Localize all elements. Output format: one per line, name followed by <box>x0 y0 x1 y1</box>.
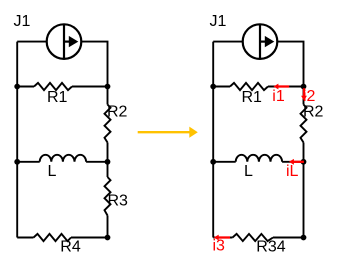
wire rail1 left segment (right circuit) <box>213 86 230 88</box>
svg-text:R1: R1 <box>242 89 263 106</box>
wire rail1 right segment <box>72 86 108 88</box>
inductor L (right) <box>236 155 282 162</box>
wire rail2 left segment (right circuit) <box>213 161 236 163</box>
wire top rail right segment <box>81 42 107 87</box>
node dot rail2 left (left circuit) <box>14 159 20 165</box>
svg-text:R34: R34 <box>256 239 285 256</box>
wire rail1 right segment (right circuit) <box>268 86 304 88</box>
wire right vertical node to R2 (right circuit) <box>303 87 305 105</box>
resistor R2 (left) <box>105 105 111 143</box>
resistor R1 (right) <box>230 83 268 90</box>
node dot rail2 right (right circuit) <box>301 159 307 165</box>
resistor R34 (right) <box>233 234 274 241</box>
node dot rail1 right (left circuit) <box>105 84 111 90</box>
node dot bottom right (right circuit) <box>301 235 307 241</box>
wire right vertical between node B and R3 <box>107 162 109 177</box>
wire bottom rail left segment (right circuit) <box>213 237 232 239</box>
current arrow iL <box>289 159 304 165</box>
wire left vertical (left circuit) <box>16 42 18 238</box>
resistor R4 (left) <box>34 234 72 241</box>
svg-text:i3: i3 <box>213 238 226 255</box>
wire top rail right segment (right circuit) <box>277 42 303 87</box>
svg-text:J1: J1 <box>14 13 31 30</box>
svg-text:L: L <box>48 163 57 180</box>
node dot rail2 right (left circuit) <box>105 159 111 165</box>
node dot rail1 right (right circuit) <box>301 84 307 90</box>
svg-text:R2: R2 <box>303 104 324 121</box>
wire right vertical R2 to node (right circuit) <box>303 143 305 162</box>
current source J1 (left) <box>47 24 82 59</box>
wire left vertical (right circuit) <box>212 42 214 238</box>
svg-text:R2: R2 <box>107 104 128 121</box>
node dot rail2 left (right circuit) <box>210 159 216 165</box>
wire rail2 right segment (right circuit) <box>282 161 303 163</box>
current arrow i1 <box>273 84 289 90</box>
svg-text:i1: i1 <box>272 88 285 105</box>
current source J1 (right) <box>243 24 278 59</box>
resistor R2 (right) <box>301 105 307 143</box>
svg-text:i2: i2 <box>303 88 316 105</box>
node dot rail1 left (right circuit) <box>210 84 216 90</box>
svg-text:R3: R3 <box>108 193 129 210</box>
resistor R3 (left) <box>105 177 111 216</box>
wire rail1 left segment <box>17 86 34 88</box>
svg-text:J1: J1 <box>210 13 227 30</box>
wire bottom rail right segment (right circuit) <box>273 237 304 239</box>
node dot rail1 left (left circuit) <box>14 84 20 90</box>
svg-text:R4: R4 <box>60 239 81 256</box>
svg-text:L: L <box>244 163 253 180</box>
inductor L (left) <box>40 155 86 162</box>
node dot bottom right (left circuit) <box>105 235 111 241</box>
resistor R1 (left) <box>34 83 72 90</box>
current arrow i3 <box>214 235 230 241</box>
wire right vertical between node A and R2 <box>107 87 109 105</box>
wire right vertical lower (right circuit) <box>303 162 305 238</box>
wire bottom rail right segment <box>71 237 108 239</box>
wire bottom rail left segment <box>17 237 33 239</box>
transform arrow (yellow) <box>138 127 198 138</box>
wire top rail left segment (right circuit) <box>213 41 243 43</box>
svg-text:R1: R1 <box>47 89 68 106</box>
wire right vertical between R3 and bottom node <box>107 216 109 238</box>
wire rail2 left segment <box>17 161 40 163</box>
wire rail2 right segment <box>86 161 107 163</box>
wire top rail left segment <box>17 41 47 43</box>
current arrow i2 <box>301 88 307 101</box>
wire right vertical between R2 and node B <box>107 143 109 162</box>
svg-text:iL: iL <box>286 163 299 180</box>
